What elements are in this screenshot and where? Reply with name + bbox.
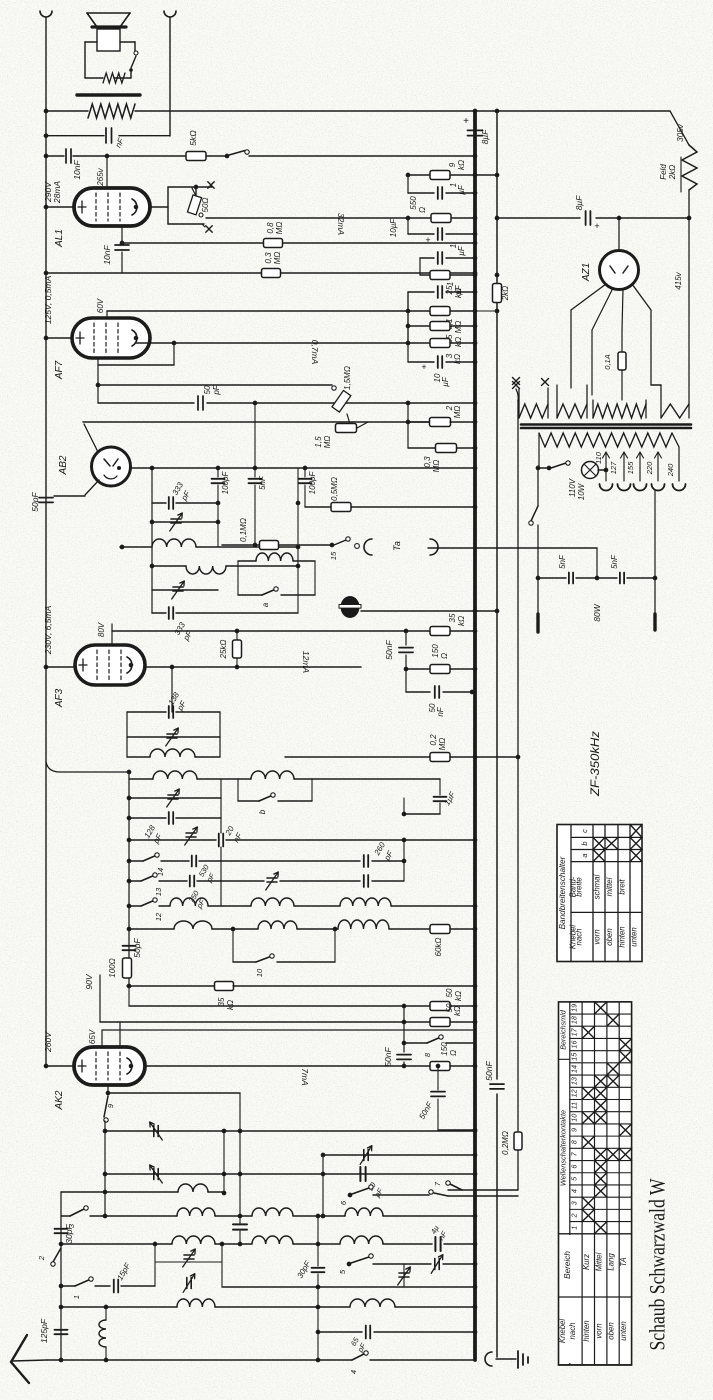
svg-text:Ω: Ω (418, 207, 427, 213)
svg-text:60V: 60V (96, 298, 105, 313)
svg-text:6: 6 (570, 1165, 579, 1169)
svg-text:240: 240 (666, 463, 675, 477)
svg-text:oben: oben (607, 1322, 616, 1339)
svg-text:breit: breit (618, 879, 627, 895)
svg-text:hinten: hinten (618, 926, 627, 947)
svg-text:10µF: 10µF (389, 218, 398, 238)
svg-text:Schaub Schwarzwald W: Schaub Schwarzwald W (645, 1178, 670, 1351)
svg-text:kΩ: kΩ (454, 337, 463, 347)
svg-text:Bereichsmld: Bereichsmld (558, 1009, 567, 1050)
svg-text:nF: nF (436, 706, 445, 716)
svg-text:unten: unten (630, 927, 639, 947)
svg-text:µF: µF (441, 376, 450, 387)
svg-text:7mA: 7mA (300, 1068, 310, 1086)
svg-text:vorn: vorn (595, 1323, 604, 1338)
svg-text:265v: 265v (96, 167, 105, 186)
svg-text:Ta: Ta (392, 541, 402, 551)
svg-text:10: 10 (255, 968, 264, 977)
svg-text:kΩ: kΩ (453, 1006, 462, 1016)
svg-text:µF: µF (457, 184, 466, 195)
svg-text:155: 155 (626, 461, 635, 474)
svg-text:kΩ: kΩ (457, 160, 466, 170)
svg-text:5nF: 5nF (558, 554, 567, 569)
svg-text:Lang: Lang (607, 1253, 616, 1271)
svg-text:65V: 65V (88, 1029, 97, 1044)
svg-text:13: 13 (154, 887, 163, 896)
svg-text:AF7: AF7 (54, 360, 65, 380)
svg-text:8µF: 8µF (480, 129, 490, 145)
svg-text:12mA: 12mA (301, 651, 311, 674)
svg-text:9: 9 (448, 162, 457, 167)
svg-text:80W: 80W (592, 603, 602, 621)
svg-text:50Ω: 50Ω (201, 198, 210, 213)
svg-text:90V: 90V (84, 973, 94, 989)
svg-text:MΩ: MΩ (432, 460, 441, 473)
svg-text:17: 17 (570, 1027, 579, 1036)
svg-text:pF: pF (212, 384, 221, 395)
svg-text:10nF: 10nF (102, 245, 112, 265)
svg-text:50: 50 (445, 988, 454, 997)
svg-text:8µF: 8µF (574, 195, 584, 211)
svg-text:10W: 10W (577, 482, 586, 500)
svg-text:Knebel: Knebel (558, 1319, 567, 1344)
svg-text:AK2: AK2 (54, 1090, 65, 1110)
svg-text:schmal: schmal (593, 874, 602, 899)
svg-text:4: 4 (349, 1370, 358, 1374)
svg-text:19: 19 (570, 1004, 579, 1012)
svg-text:MΩ: MΩ (453, 406, 462, 419)
svg-text:15: 15 (570, 1052, 579, 1061)
svg-text:125pF: 125pF (39, 1318, 49, 1343)
svg-text:kΩ: kΩ (226, 1000, 235, 1010)
svg-text:28mA: 28mA (52, 181, 62, 205)
svg-text:Mittel: Mittel (595, 1252, 604, 1271)
svg-text:220: 220 (645, 461, 654, 475)
svg-text:nach: nach (575, 929, 584, 946)
svg-text:2kΩ: 2kΩ (668, 165, 677, 181)
svg-text:2kΩ: 2kΩ (501, 286, 510, 302)
svg-text:150: 150 (431, 644, 440, 658)
svg-text:Ω: Ω (440, 653, 449, 659)
svg-text:4: 4 (570, 1189, 579, 1193)
svg-text:1: 1 (72, 1295, 81, 1299)
svg-text:0,1A: 0,1A (603, 354, 612, 369)
svg-text:50nF: 50nF (384, 640, 394, 660)
svg-text:+: + (425, 235, 430, 245)
svg-text:16: 16 (570, 1041, 579, 1049)
svg-text:+: + (421, 362, 426, 372)
svg-text:127: 127 (609, 461, 618, 474)
svg-text:MΩ: MΩ (273, 252, 282, 265)
svg-text:+: + (594, 221, 599, 231)
svg-text:35: 35 (217, 997, 226, 1006)
svg-text:Bereich: Bereich (563, 1251, 572, 1279)
svg-text:MΩ: MΩ (438, 738, 447, 751)
svg-text:vorn: vorn (593, 929, 602, 944)
svg-text:18: 18 (570, 1016, 579, 1024)
svg-text:+: + (463, 116, 469, 127)
svg-text:230V, 6,5mA: 230V, 6,5mA (43, 605, 53, 655)
svg-text:b: b (258, 809, 267, 814)
svg-text:2: 2 (570, 1213, 579, 1218)
svg-text:10: 10 (570, 1114, 579, 1122)
svg-text:0,8: 0,8 (266, 222, 275, 234)
svg-text:9: 9 (570, 1128, 579, 1132)
svg-text:260V: 260V (43, 1031, 53, 1053)
svg-text:100pF: 100pF (308, 471, 317, 495)
svg-text:50pF: 50pF (132, 938, 142, 958)
svg-text:1,5: 1,5 (314, 436, 323, 448)
svg-text:kΩ: kΩ (454, 991, 463, 1001)
svg-text:50nF: 50nF (383, 1047, 393, 1067)
svg-text:1: 1 (570, 1226, 579, 1230)
svg-text:150: 150 (440, 1042, 449, 1056)
svg-text:hinten: hinten (582, 1320, 591, 1341)
svg-text:10nF: 10nF (72, 160, 82, 180)
svg-text:11: 11 (570, 1102, 579, 1109)
svg-text:AL1: AL1 (54, 229, 65, 248)
svg-text:32mA: 32mA (336, 213, 346, 236)
svg-text:breite: breite (575, 877, 584, 897)
svg-text:25kΩ: 25kΩ (219, 640, 228, 660)
svg-text:Ω: Ω (449, 1050, 458, 1056)
svg-text:3: 3 (570, 1201, 579, 1205)
svg-text:415v: 415v (674, 271, 683, 289)
svg-text:MΩ: MΩ (275, 222, 284, 235)
svg-text:550: 550 (409, 196, 418, 210)
svg-text:80V: 80V (97, 622, 106, 637)
svg-text:MΩ: MΩ (323, 436, 332, 449)
svg-text:8: 8 (570, 1140, 579, 1144)
svg-text:Kurz: Kurz (582, 1254, 591, 1270)
svg-text:5nF: 5nF (610, 554, 619, 569)
svg-text:0,3: 0,3 (264, 252, 273, 264)
svg-text:AZ1: AZ1 (581, 263, 592, 282)
svg-text:mittel: mittel (605, 877, 614, 896)
svg-text:MΩ: MΩ (454, 321, 463, 334)
svg-text:50pF: 50pF (30, 492, 40, 512)
svg-text:0,3: 0,3 (423, 456, 432, 468)
svg-text:ZF-350kHz: ZF-350kHz (590, 731, 602, 797)
svg-text:60kΩ: 60kΩ (434, 938, 443, 957)
svg-text:AF3: AF3 (54, 688, 65, 708)
svg-text:b: b (580, 841, 589, 845)
svg-text:0,5MΩ: 0,5MΩ (330, 477, 339, 501)
svg-text:5kΩ: 5kΩ (188, 130, 198, 146)
svg-text:0,2: 0,2 (429, 734, 438, 746)
svg-text:35: 35 (448, 613, 457, 622)
svg-text:13: 13 (570, 1077, 579, 1085)
svg-text:100Ω: 100Ω (108, 958, 117, 977)
svg-text:110V: 110V (568, 478, 577, 497)
svg-text:a: a (580, 853, 589, 857)
svg-text:AB2: AB2 (58, 455, 69, 475)
svg-text:TA: TA (619, 1257, 628, 1266)
svg-text:50: 50 (203, 385, 212, 394)
svg-text:unten: unten (619, 1321, 628, 1341)
svg-text:0,2MΩ: 0,2MΩ (501, 1131, 510, 1155)
svg-text:5nF: 5nF (258, 475, 267, 490)
svg-text:Wellenschalterkontakte: Wellenschalterkontakte (558, 1110, 567, 1186)
svg-text:12: 12 (154, 912, 163, 921)
svg-text:12: 12 (570, 1089, 579, 1097)
svg-text:15: 15 (329, 551, 338, 560)
svg-text:oben: oben (605, 928, 614, 945)
svg-text:125V, 0,5mA: 125V, 0,5mA (43, 275, 53, 324)
svg-text:Feld: Feld (659, 164, 668, 180)
svg-text:kΩ: kΩ (457, 616, 466, 626)
svg-text:30pF: 30pF (64, 1224, 74, 1244)
svg-text:2: 2 (37, 1255, 46, 1261)
svg-text:100pF: 100pF (221, 471, 230, 495)
svg-text:305v: 305v (676, 123, 685, 141)
svg-text:c: c (580, 829, 589, 833)
svg-text:a: a (261, 602, 270, 607)
svg-text:Bandbreitenschalter: Bandbreitenschalter (558, 856, 567, 929)
svg-text:nach: nach (568, 1323, 577, 1340)
svg-text:µF: µF (457, 245, 466, 256)
svg-text:µF: µF (454, 284, 463, 295)
svg-text:110: 110 (594, 451, 603, 464)
svg-text:1,5MΩ: 1,5MΩ (343, 366, 352, 390)
svg-text:50nF: 50nF (484, 1061, 494, 1081)
svg-text:0,1MΩ: 0,1MΩ (239, 518, 248, 542)
svg-text:14: 14 (570, 1065, 579, 1073)
